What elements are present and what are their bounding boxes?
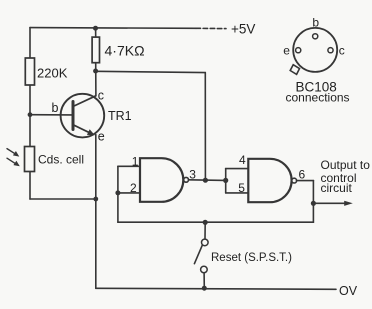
wire: resistor bottom to collector <box>95 63 97 96</box>
svg-text:Cds. cell: Cds. cell <box>38 153 84 167</box>
svg-text:Output to: Output to <box>321 158 371 172</box>
svg-text:OV: OV <box>339 284 358 298</box>
svg-text:TR1: TR1 <box>108 109 132 123</box>
svg-text:c: c <box>339 44 345 58</box>
wire: bottom-left horizontal to emitter line <box>30 198 96 200</box>
node: junction at bottom of 4.7K <box>93 69 98 74</box>
wire: gate1 input tie line down to feedback <box>117 166 119 222</box>
wire: gate1 input pin1 stub <box>118 165 140 167</box>
wire: +5V top rail <box>30 27 196 30</box>
wire: gate2 input pin4 stub <box>226 168 249 170</box>
svg-text:220K: 220K <box>37 66 68 81</box>
svg-text:+5V: +5V <box>231 22 255 37</box>
node: junction at top of 4.7K <box>93 26 98 31</box>
NAND gate U1a body <box>140 158 183 202</box>
switch S1 bottom contact <box>201 266 208 273</box>
node: base junction on left rail <box>28 112 33 117</box>
switch S1 Reset: top lead <box>204 222 206 239</box>
node: junction feedback and reset switch <box>203 220 208 225</box>
wire: base wire <box>30 114 72 116</box>
switch S1 bottom lead <box>203 273 205 288</box>
svg-text:b: b <box>52 101 59 115</box>
light arrow 2 into Cds cell <box>7 158 20 166</box>
BC108 pin c <box>328 48 333 53</box>
BC108 case tab <box>290 65 299 75</box>
svg-text:4: 4 <box>239 153 246 167</box>
svg-text:5: 5 <box>238 181 245 195</box>
svg-text:4·7KΩ: 4·7KΩ <box>105 43 145 59</box>
transistor TR1 emitter stroke with arrow <box>74 125 91 133</box>
BC108 pin e <box>296 48 301 53</box>
node: junction mid-rail meets gate1 output wire <box>203 178 208 183</box>
NAND gate U1a output bubble <box>184 177 189 182</box>
wire: gate1 output to gate2 inputs <box>189 179 226 182</box>
node: junction gate2 input tie <box>223 178 228 183</box>
transistor TR1 collector stroke <box>74 96 96 106</box>
svg-text:c: c <box>98 89 104 103</box>
svg-text:e: e <box>98 130 105 144</box>
svg-text:e: e <box>283 44 290 58</box>
wire: top rail down to 4.7K resistor <box>95 28 97 37</box>
wire: mid rail from resistor bottom to gate 1 output column <box>96 71 206 72</box>
resistor R2 4.7K <box>92 37 99 63</box>
wire: 0V bottom rail <box>96 288 336 289</box>
node: junction on gate1 input tie <box>115 190 120 195</box>
wire: left vertical rail <box>29 28 31 199</box>
wire: emitter down to 0V rail <box>95 135 97 289</box>
node: output tap junction <box>311 201 316 206</box>
BC108 pin b <box>313 34 318 39</box>
wire: gate2 input tie line <box>225 169 227 193</box>
wire: gate1 input pin2 stub <box>118 192 140 194</box>
svg-text:circuit: circuit <box>321 181 353 195</box>
switch S1 top contact <box>202 239 209 246</box>
wire: gate2 output to right column <box>297 180 314 182</box>
wire: feedback from gate2 output to gate1 inputs <box>118 221 314 223</box>
svg-text:6: 6 <box>299 167 306 181</box>
svg-text:b: b <box>312 15 319 29</box>
svg-text:Reset (S.P.S.T.): Reset (S.P.S.T.) <box>211 252 292 264</box>
node: junction reset to 0V rail <box>202 286 207 291</box>
photoresistor: Cds cell <box>25 147 35 172</box>
light arrow 1 into Cds cell <box>7 149 19 157</box>
svg-text:connections: connections <box>286 91 350 105</box>
NAND gate U1b output bubble <box>292 178 297 183</box>
transistor TR1 base bar <box>72 102 75 130</box>
node: junction emitter line and left-rail return <box>93 197 98 202</box>
BC108 package outline circle <box>293 28 337 72</box>
NAND gate U1b body <box>248 159 291 202</box>
wire: gate2 input pin5 stub <box>226 192 249 194</box>
resistor R1 220K <box>25 58 34 85</box>
switch S1 lever <box>194 245 202 263</box>
label Output to control circuit <box>321 158 371 195</box>
transistor Q1 TR1 circle <box>61 94 105 138</box>
wire: output arrow to control circuit <box>313 202 345 204</box>
